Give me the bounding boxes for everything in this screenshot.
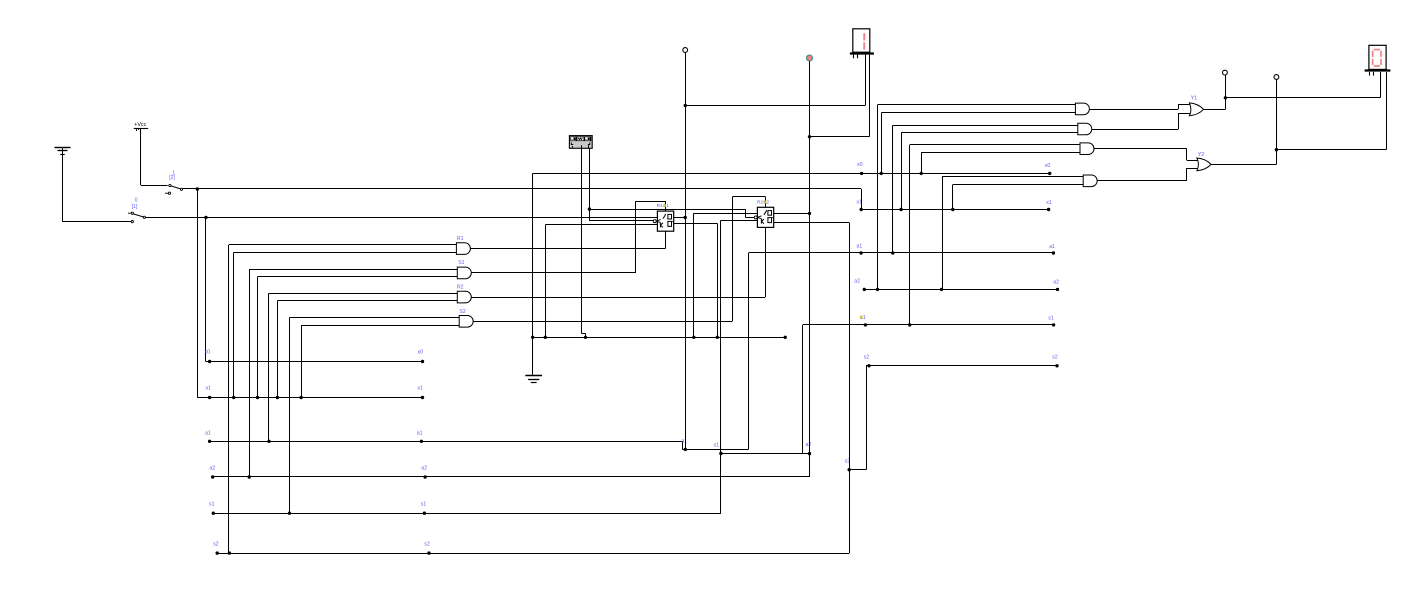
and-gate C (x0*s1)	[1080, 143, 1094, 155]
svg-text:a1: a1	[205, 430, 211, 436]
junction switch S0 node	[204, 216, 207, 219]
node x0 left rail	[206, 360, 424, 363]
wire BIT2 J to ground rail	[694, 213, 758, 337]
wire gate B input b from x1 rail	[901, 133, 1078, 210]
svg-text:S1: S1	[458, 260, 464, 266]
and-gate D (x1*a2)	[1083, 175, 1097, 187]
wire R1 output to BIT1 clear pin	[470, 231, 665, 248]
DIP switch block (clock source)	[569, 136, 592, 149]
wire S2 output loop to BIT2 preset pin	[473, 197, 765, 322]
svg-text:s1: s1	[1048, 315, 1054, 321]
svg-text:a2: a2	[210, 466, 216, 472]
ground GND2 (below DIP)	[525, 337, 542, 382]
wire Y2 output to pin and display	[1211, 72, 1387, 165]
and-gate R1	[456, 243, 470, 255]
svg-text:R2: R2	[457, 285, 464, 291]
wire BIT1 Q to clock column	[674, 217, 686, 219]
wire x0 riser down to left rail	[205, 218, 207, 362]
and-gate S1	[457, 267, 471, 279]
wire S2 input a from s1 rail	[290, 318, 460, 514]
wire gate C input a from s1 rail	[910, 145, 1081, 325]
junction BIT1 Q node a1	[684, 216, 687, 219]
wire display U1 pin a	[685, 55, 865, 106]
junction x0 right connector	[860, 172, 863, 175]
wire net x1 : switch S1 to east riser	[183, 188, 862, 190]
svg-text:s1: s1	[209, 502, 215, 508]
svg-text:Y2: Y2	[1198, 152, 1204, 158]
switch S0 (key 1)	[128, 212, 145, 223]
output pin Y2 (open circle)	[1274, 75, 1279, 80]
svg-text:S2: S2	[459, 309, 465, 315]
highlight mark BIT2	[764, 201, 766, 204]
node a1 left rail to clock column jog	[208, 440, 749, 452]
wire R2 output to BIT2 clear pin	[471, 227, 765, 297]
wire gate B input a from a1 rail	[893, 125, 1078, 253]
junction s2 column	[848, 468, 851, 471]
wire probe column a2 net	[809, 61, 811, 453]
svg-text:x1: x1	[418, 385, 424, 391]
wire clock to BIT2 CLK	[589, 209, 754, 217]
svg-text:a2: a2	[806, 442, 812, 448]
wire net x0 : switch S0 east to BIT1 J input	[146, 217, 658, 219]
svg-text:s1: s1	[714, 443, 720, 449]
label switch S0 value 0 [1]	[132, 198, 138, 210]
node x1 right rail	[860, 189, 1051, 211]
wire R2 input a from a1 rail	[269, 293, 458, 441]
node x1 left rail	[197, 396, 424, 399]
wire gate A input a from a2 rail	[878, 105, 1076, 290]
node a2 left rail	[211, 454, 810, 479]
wire DIP pin2 clock stub	[589, 149, 591, 209]
node a2 right rail	[863, 288, 1060, 291]
power +Vcc symbol	[134, 122, 148, 185]
svg-text:R1S1: R1S1	[657, 203, 670, 209]
7-segment display U1 digit 1	[850, 29, 874, 58]
wire gate D input a from a2 rail	[942, 177, 1083, 290]
junction 7seg1 feed	[684, 104, 687, 107]
node ground rail	[531, 336, 787, 339]
svg-text:a1: a1	[1049, 244, 1055, 250]
wire S2 input b from x1 rail	[301, 325, 459, 397]
highlight mark s1	[860, 316, 862, 319]
wire s1 link west of right rail	[803, 325, 866, 454]
switch S1 (key 2, closed to node)	[165, 184, 183, 194]
wire Vcc to switch S1	[141, 185, 168, 187]
highlight mark BIT1	[664, 204, 666, 207]
output pin Y1 (open circle)	[1223, 70, 1228, 75]
ground GND1 (top-left)	[55, 148, 71, 222]
wire BIT1 Q-bar to ground rail	[674, 223, 718, 337]
node a1 right rail dots	[859, 251, 1055, 254]
wire DIP pin1 down to ground rail	[581, 149, 585, 337]
svg-text:x1: x1	[857, 199, 863, 205]
wire S1 output loop to BIT1 preset pin	[471, 201, 666, 273]
svg-text:[2]: [2]	[169, 175, 175, 181]
label switch S1 value 1 [2]	[169, 170, 175, 180]
svg-text:0: 0	[135, 198, 138, 204]
flip-flop BIT1 (JK)	[653, 211, 674, 231]
wire s2 riser to right rail	[849, 366, 869, 470]
svg-text:s2: s2	[864, 355, 870, 361]
junction s1 column at bus	[719, 452, 722, 455]
wire ground to switch S0	[62, 221, 131, 223]
svg-text:s1: s1	[421, 502, 427, 508]
svg-text:x0: x0	[418, 349, 424, 355]
wire gate D output to Y2	[1097, 168, 1200, 181]
wire S1 input b from x1 rail	[258, 277, 458, 398]
wire R2 input b from x1 rail	[277, 301, 457, 398]
and-gate R2	[457, 291, 471, 303]
svg-text:a1: a1	[857, 243, 863, 249]
or-gate Y1	[1189, 103, 1203, 116]
node s2 right rail	[867, 364, 1058, 367]
wire Y1 output to pin and display	[1203, 72, 1381, 110]
wire gate C output to Y2	[1094, 149, 1200, 161]
wire gate A output to Y1	[1089, 104, 1193, 109]
junction gate A lower riser on x0	[880, 172, 883, 175]
wire clock column a1 net	[685, 52, 687, 449]
junction a2 column at bus	[808, 452, 811, 455]
svg-text:a2: a2	[421, 466, 427, 472]
wire gate D input b from x1 rail	[953, 185, 1084, 210]
svg-text:[1]: [1]	[132, 204, 138, 210]
wire bus s1/a2 horizontal	[721, 453, 810, 455]
node s1 right rail dots	[864, 323, 1056, 326]
junction 7seg1 feed 2	[808, 135, 811, 138]
wire display U1 pin b	[810, 55, 870, 137]
and-gate B (x1*a1)	[1078, 123, 1092, 135]
wire R1 input b from x1 rail	[234, 252, 457, 397]
wire a1 riser and link to right rail	[749, 253, 1054, 450]
svg-text:a2: a2	[1053, 279, 1059, 285]
svg-text:+Vcc: +Vcc	[134, 122, 146, 128]
wire gate A input b from x0 rail	[881, 113, 1075, 174]
wire S1 input a from a2 rail	[249, 269, 457, 477]
wire BIT2 K to node s1 column	[721, 220, 758, 513]
and-gate A (x0*a2)	[1075, 103, 1089, 115]
svg-text:a1: a1	[681, 439, 687, 445]
wire BIT2 Q-bar down to s2 rail	[774, 223, 850, 554]
svg-text:s2: s2	[1052, 355, 1058, 361]
svg-text:s2: s2	[424, 541, 430, 547]
svg-text:x0: x0	[205, 349, 211, 355]
svg-text:a2: a2	[854, 279, 860, 285]
junction x0 right end	[1048, 172, 1051, 175]
wire gate C input b from x0 rail	[921, 153, 1080, 174]
svg-text:x0: x0	[857, 162, 863, 168]
flip-flop BIT2 (JK)	[754, 207, 774, 227]
svg-text:s2: s2	[213, 541, 219, 547]
wire gate B output to Y1	[1092, 113, 1193, 129]
junction gate C lower riser on x0	[920, 172, 923, 175]
svg-text:x1: x1	[206, 385, 212, 391]
svg-text:Y1: Y1	[1191, 96, 1197, 102]
wire net x0 right : ground rail riser and long rail	[533, 173, 1050, 337]
wire clock to BIT1 CLK	[589, 209, 653, 221]
svg-text:x0: x0	[1045, 163, 1051, 169]
probe X1 (red indicator)	[807, 55, 813, 61]
svg-text:x1: x1	[1046, 200, 1052, 206]
wire BIT2 Q to probe column	[774, 213, 810, 215]
svg-text:a1: a1	[417, 430, 423, 436]
input pin CLOCK (open circle)	[683, 48, 688, 53]
junction BIT2 Q node	[808, 212, 811, 215]
7-segment display U2 digit 0	[1365, 45, 1391, 75]
node s1 left rail	[212, 512, 721, 515]
junction clock split	[588, 207, 591, 210]
node s2 left rail	[216, 551, 850, 554]
wire R1 input a from s2 rail	[229, 245, 457, 554]
junction switch S1 node	[196, 187, 199, 190]
wire x1 riser down to left rail	[197, 189, 199, 398]
svg-text:R2S2: R2S2	[757, 199, 770, 205]
wire BIT1 K to ground rail	[545, 225, 657, 338]
or-gate Y2	[1197, 158, 1211, 171]
svg-text:R1: R1	[457, 236, 464, 242]
and-gate S2	[459, 316, 473, 328]
